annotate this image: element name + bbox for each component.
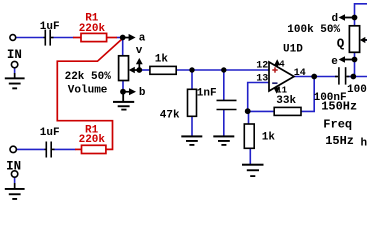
svg-text:v: v [136,45,143,57]
svg-text:Q: Q [337,37,345,51]
svg-text:100k 50%: 100k 50% [287,24,340,36]
svg-text:1uF: 1uF [40,21,60,33]
svg-text:h: h [361,138,367,150]
svg-text:100n: 100n [347,84,367,96]
svg-text:12: 12 [256,61,268,72]
svg-text:15Hz: 15Hz [325,134,354,148]
svg-text:d: d [332,13,339,25]
svg-text:a: a [139,33,146,45]
svg-text:Volume: Volume [68,84,108,96]
svg-text:U1D: U1D [283,44,303,56]
svg-text:220k: 220k [79,134,106,146]
svg-text:IN: IN [6,159,21,173]
svg-text:Freq: Freq [323,118,352,132]
svg-text:22k 50%: 22k 50% [65,71,112,83]
svg-text:220k: 220k [79,23,106,35]
svg-text:e: e [331,56,338,68]
svg-text:IN: IN [7,48,22,62]
svg-text:47k: 47k [160,109,180,121]
svg-text:33k: 33k [276,95,296,107]
svg-text:14: 14 [294,68,306,79]
svg-text:1k: 1k [155,54,169,66]
svg-text:11: 11 [276,85,287,95]
svg-text:150Hz: 150Hz [321,99,357,113]
svg-text:1nF: 1nF [197,88,217,100]
svg-text:b: b [139,87,146,99]
svg-text:4: 4 [279,60,285,70]
svg-text:13: 13 [256,73,268,84]
svg-text:1uF: 1uF [40,127,60,139]
svg-text:1k: 1k [262,132,276,144]
